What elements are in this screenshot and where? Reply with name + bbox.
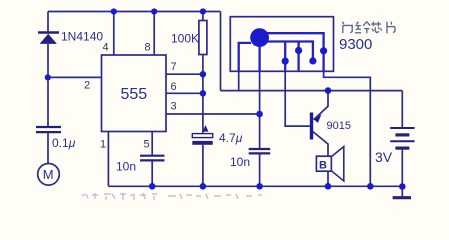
- svg-text:7: 7: [171, 61, 177, 73]
- svg-text:555: 555: [121, 86, 148, 103]
- svg-text:3V: 3V: [375, 149, 393, 165]
- svg-text:4: 4: [103, 42, 109, 54]
- svg-text:B: B: [319, 160, 327, 172]
- svg-text:10n: 10n: [230, 155, 250, 169]
- svg-text:1: 1: [100, 139, 106, 151]
- svg-text:4.7μ: 4.7μ: [219, 131, 243, 145]
- svg-text:100K: 100K: [171, 32, 199, 46]
- svg-text:9015: 9015: [327, 120, 351, 132]
- svg-text:0.1μ: 0.1μ: [52, 136, 76, 150]
- svg-text:M: M: [43, 167, 54, 182]
- svg-text:2: 2: [84, 80, 90, 92]
- svg-text:1N4140: 1N4140: [61, 30, 103, 44]
- svg-text:8: 8: [145, 42, 151, 54]
- svg-text:6: 6: [171, 81, 177, 93]
- svg-text:5: 5: [144, 139, 150, 151]
- svg-text:3: 3: [171, 101, 177, 113]
- svg-text:9300: 9300: [339, 36, 372, 53]
- svg-text:10n: 10n: [116, 160, 136, 174]
